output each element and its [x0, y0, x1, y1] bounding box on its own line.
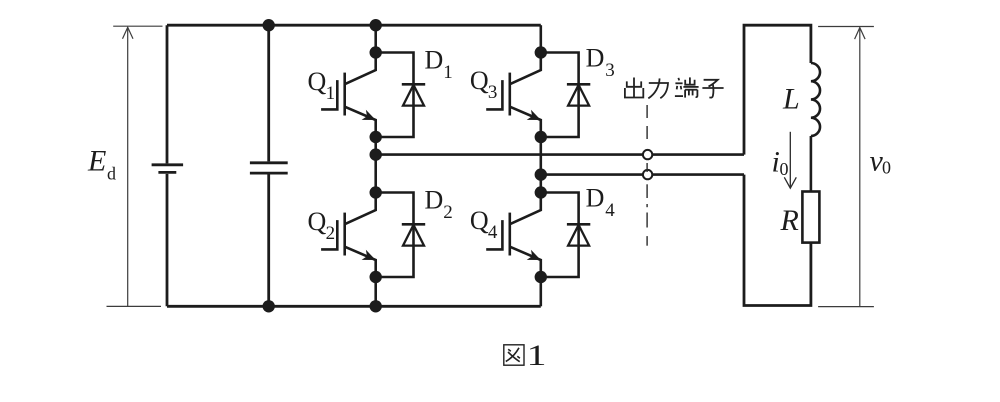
- kanji 子: [702, 80, 723, 98]
- svg-text:1: 1: [443, 62, 453, 83]
- label i0: [772, 146, 789, 180]
- label 出力端子 (output terminals, hand-drawn kanji): [625, 77, 724, 98]
- diode D1: [376, 53, 426, 138]
- node: Q2 emitter / D2 anode: [370, 271, 382, 283]
- IGBT Q4: [486, 193, 541, 278]
- svg-text:Q: Q: [470, 66, 489, 95]
- label Q2: [308, 207, 336, 244]
- wire: right leg bottom segment: [539, 277, 542, 306]
- diode D3: [541, 53, 591, 138]
- diode D2: [376, 193, 426, 278]
- wire: left leg bottom segment: [374, 277, 377, 306]
- IGBT Q2: [321, 193, 376, 278]
- node: bottom rail / left leg: [370, 300, 382, 312]
- svg-text:d: d: [107, 164, 116, 184]
- node: Q1 emitter / D1 anode: [370, 131, 382, 143]
- svg-text:L: L: [782, 83, 800, 116]
- caption 図1: [504, 339, 547, 372]
- wire: left source leg lower: [166, 174, 169, 306]
- IGBT Q1: [321, 53, 376, 138]
- resistor R: [802, 192, 819, 243]
- node: top rail / left leg: [370, 19, 382, 31]
- node: left leg output junction: [370, 148, 382, 160]
- label D1: [425, 46, 453, 84]
- node: Q4 collector / D4 cathode: [535, 186, 547, 198]
- svg-text:0: 0: [882, 158, 891, 178]
- wire: upper output wire (left part): [376, 153, 643, 156]
- wire: right leg top segment: [539, 25, 542, 52]
- wire: right leg mid segment: [539, 137, 542, 193]
- node: Q2 collector / D2 cathode: [370, 186, 382, 198]
- svg-text:2: 2: [443, 202, 453, 223]
- current arrow i0: [789, 132, 791, 187]
- dash-dot terminal axis line: [646, 105, 648, 246]
- label v0: [870, 144, 892, 177]
- terminal (upper output): [643, 150, 652, 159]
- svg-text:R: R: [780, 204, 799, 237]
- wire: between L and R: [810, 136, 813, 192]
- svg-text:1: 1: [527, 339, 547, 372]
- wire: upper output wire (right part): [652, 153, 744, 156]
- svg-text:0: 0: [780, 159, 789, 179]
- battery E (short plate): [158, 171, 176, 174]
- wire: capacitor leg upper: [267, 25, 270, 161]
- dimension Ed: bottom tick: [107, 305, 162, 307]
- label Ed: [87, 145, 116, 184]
- kanji 出: [625, 78, 643, 98]
- IGBT Q3: [486, 53, 541, 138]
- label Q3: [470, 66, 498, 103]
- wire: lower output wire (right part): [652, 173, 744, 176]
- capacitor C (top plate): [250, 161, 288, 164]
- wire: left leg mid segment: [374, 137, 377, 193]
- node: right leg output junction: [535, 168, 547, 180]
- svg-text:D: D: [586, 44, 605, 73]
- svg-text:E: E: [87, 145, 106, 178]
- node: Q3 collector / D3 cathode: [535, 46, 547, 58]
- dimension Ed: arrowhead: [123, 27, 134, 39]
- capacitor C (bottom plate): [250, 172, 288, 175]
- svg-text:D: D: [425, 186, 444, 215]
- wire: bottom DC rail: [167, 305, 541, 308]
- diode D4: [541, 193, 591, 278]
- dimension Ed: arrow line: [127, 27, 129, 306]
- label D4: [586, 184, 616, 222]
- node: Q3 emitter / D3 anode: [535, 131, 547, 143]
- dimension v0: arrow line: [859, 28, 861, 307]
- svg-text:Q: Q: [470, 206, 489, 235]
- node: Q4 emitter / D4 anode: [535, 271, 547, 283]
- label Q1: [308, 67, 336, 104]
- svg-text:3: 3: [488, 82, 498, 103]
- dimension v0: bottom tick: [818, 306, 874, 308]
- junction dots: [263, 19, 548, 312]
- svg-text:4: 4: [488, 222, 498, 243]
- svg-text:Q: Q: [308, 207, 327, 236]
- kanji 力: [648, 78, 668, 98]
- svg-text:Q: Q: [308, 67, 327, 96]
- svg-text:4: 4: [605, 200, 615, 221]
- inductor L: [811, 63, 820, 136]
- wire: capacitor leg lower: [267, 175, 270, 307]
- label Q4: [470, 206, 498, 243]
- svg-text:3: 3: [605, 60, 615, 81]
- wire: load loop top (terminal to box top): [744, 25, 811, 154]
- wire: left source leg upper: [166, 25, 169, 163]
- dimension v0: top tick: [818, 26, 874, 28]
- wire: load loop bottom (R to lower terminal wire): [744, 175, 811, 306]
- label D2: [425, 186, 453, 224]
- node: top rail / capacitor: [263, 19, 275, 31]
- dimension v0: arrowhead: [855, 28, 866, 39]
- svg-text:2: 2: [326, 223, 336, 244]
- kanji 端: [675, 77, 699, 97]
- node: Q1 collector / D1 cathode: [370, 46, 382, 58]
- kanji 図: [504, 345, 524, 365]
- wire: left leg top segment: [374, 25, 377, 52]
- dimension Ed: top tick: [113, 25, 162, 27]
- svg-text:D: D: [586, 184, 605, 213]
- svg-text:1: 1: [326, 83, 336, 104]
- battery E (long plate): [152, 163, 184, 166]
- wire: top DC rail: [167, 24, 541, 27]
- node: bottom rail / capacitor: [263, 300, 275, 312]
- label D3: [586, 44, 615, 82]
- svg-text:D: D: [425, 46, 444, 75]
- terminal (lower output): [643, 170, 652, 179]
- wire: lower output wire (left part): [541, 173, 643, 176]
